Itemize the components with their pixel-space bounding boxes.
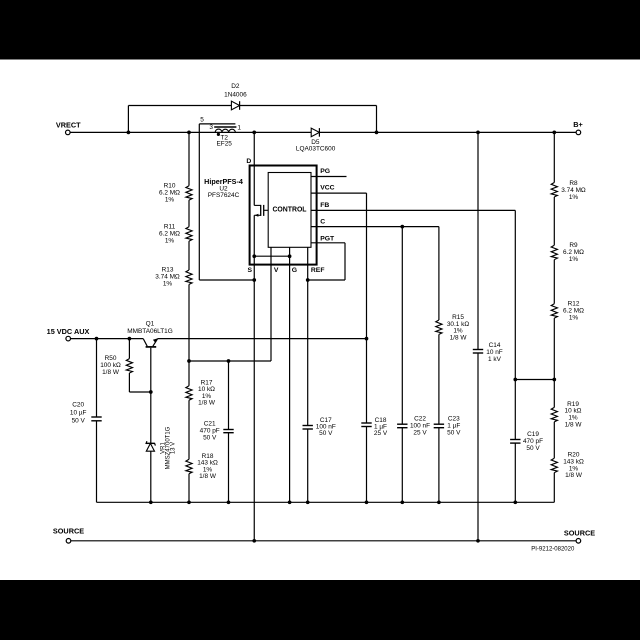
- label C22: [410, 416, 430, 437]
- resistor R8: [551, 183, 557, 197]
- wire source to G net: [254, 255, 289, 257]
- svg-text:C19: C19: [527, 431, 539, 438]
- wire R13 to V node: [188, 284, 190, 361]
- junction on G pin line: [288, 254, 292, 258]
- resistor R13: [186, 270, 192, 284]
- wire 15VDC to Q1 collector: [70, 338, 143, 340]
- label R13: [155, 267, 180, 288]
- svg-text:C: C: [320, 218, 325, 225]
- wire PG stub: [311, 176, 347, 178]
- wire to D2 anode: [128, 105, 231, 107]
- wire S pin inside: [253, 256, 255, 265]
- wire FB to divider: [515, 379, 554, 381]
- label C17: [316, 417, 336, 437]
- junction C19 rail: [513, 500, 517, 504]
- wire R11 to R13: [188, 241, 190, 270]
- wire ground rail: [97, 501, 555, 503]
- wire C pin to R15: [438, 227, 440, 320]
- junction C21 tap: [227, 359, 231, 363]
- wire G pin to rail: [289, 265, 291, 503]
- op-amp U2 HiperPFS-4 package box: [250, 166, 317, 265]
- capacitor C22: [397, 423, 407, 425]
- svg-text:470 pF: 470 pF: [523, 438, 543, 445]
- svg-text:6.2 MΩ: 6.2 MΩ: [563, 249, 584, 256]
- wire Q1 emitter to VCC net: [158, 338, 367, 340]
- svg-text:1/8 W: 1/8 W: [565, 472, 583, 479]
- label R17: [198, 379, 216, 406]
- svg-text:470 pF: 470 pF: [200, 427, 220, 434]
- wire D2 branch up: [127, 106, 129, 133]
- svg-text:PFS7624C: PFS7624C: [208, 192, 240, 199]
- svg-text:1%: 1%: [569, 314, 579, 321]
- svg-text:Q1: Q1: [146, 321, 155, 328]
- junction divider FB tap: [552, 378, 556, 382]
- svg-text:1%: 1%: [165, 196, 175, 203]
- svg-text:R11: R11: [164, 223, 176, 230]
- diode D5: [311, 128, 319, 137]
- svg-text:1: 1: [237, 125, 241, 132]
- wire SOURCE line: [71, 540, 577, 542]
- wire B+ to R8: [553, 132, 555, 182]
- wire Q1 base down: [150, 348, 152, 392]
- svg-text:10 nF: 10 nF: [486, 349, 503, 356]
- svg-text:PG: PG: [320, 168, 330, 175]
- wire VCC pin: [311, 192, 367, 194]
- wire V node to R17: [188, 361, 190, 386]
- svg-text:15 VDC AUX: 15 VDC AUX: [47, 327, 90, 336]
- svg-text:3.74 MΩ: 3.74 MΩ: [155, 274, 180, 281]
- wire C23 to rail: [438, 428, 440, 503]
- svg-text:1%: 1%: [569, 194, 579, 201]
- capacitor C17: [303, 425, 313, 427]
- terminal SOURCE right: [576, 539, 581, 544]
- svg-text:1N4006: 1N4006: [224, 92, 247, 99]
- wire FB down to C19: [514, 210, 516, 439]
- wire C17 to rail: [307, 429, 309, 502]
- svg-text:PGT: PGT: [320, 235, 335, 242]
- svg-text:SOURCE: SOURCE: [564, 528, 595, 537]
- wire B+ to C14: [477, 132, 479, 349]
- svg-text:R13: R13: [162, 267, 174, 274]
- junction FB node: [513, 378, 517, 382]
- label C19: [523, 431, 543, 452]
- svg-text:VRECT: VRECT: [56, 120, 81, 129]
- wire G pin: [289, 247, 291, 265]
- svg-text:1 µF: 1 µF: [447, 423, 460, 430]
- resistor R50: [126, 359, 132, 373]
- junction D2 branch: [127, 131, 131, 135]
- svg-text:EF25: EF25: [217, 140, 233, 147]
- junction D2 return: [375, 131, 379, 135]
- junction G rail: [288, 500, 292, 504]
- svg-text:R12: R12: [568, 300, 580, 307]
- capacitor C21: [223, 429, 233, 431]
- svg-text:1/8 W: 1/8 W: [102, 369, 120, 376]
- transformer T2 winding: [215, 129, 235, 132]
- svg-text:R8: R8: [569, 180, 578, 187]
- junction VCC-C18: [365, 337, 369, 341]
- svg-text:C21: C21: [204, 420, 216, 427]
- wire PGT pin: [311, 242, 345, 244]
- resistor R17: [186, 386, 192, 400]
- svg-text:1%: 1%: [165, 237, 175, 244]
- svg-text:R10: R10: [164, 182, 176, 189]
- junction R18 rail: [187, 500, 191, 504]
- svg-text:50 V: 50 V: [72, 417, 86, 424]
- svg-text:50 V: 50 V: [319, 430, 333, 437]
- junction source-S: [252, 254, 256, 258]
- svg-text:3: 3: [209, 124, 213, 131]
- wire R9 to R12: [553, 260, 555, 304]
- svg-text:1 kV: 1 kV: [488, 356, 502, 363]
- junction S-SOURCE: [252, 539, 256, 543]
- svg-text:25 V: 25 V: [374, 430, 388, 437]
- junction S node: [252, 278, 256, 282]
- svg-text:PI-9212-082020: PI-9212-082020: [531, 546, 575, 552]
- wire to C20: [96, 339, 98, 417]
- junction C20 tap: [95, 337, 99, 341]
- svg-text:LQA03TC600: LQA03TC600: [296, 146, 336, 153]
- diode D2: [231, 101, 239, 110]
- wire C20 to rail: [96, 421, 98, 503]
- svg-text:1/8 W: 1/8 W: [565, 421, 583, 428]
- junction C21 rail: [227, 500, 231, 504]
- svg-text:50 V: 50 V: [203, 434, 217, 441]
- resistor R9: [551, 245, 557, 259]
- capacitor C23: [434, 423, 444, 425]
- label C18: [374, 417, 388, 437]
- svg-text:CONTROL: CONTROL: [272, 207, 306, 214]
- T2 phase dot: [217, 133, 220, 136]
- label R11: [159, 223, 180, 244]
- wire R17 to R18: [188, 400, 190, 459]
- wire PGT down: [344, 243, 346, 280]
- terminal VRECT: [66, 130, 71, 135]
- label R9: [563, 242, 584, 263]
- resistor R10: [186, 186, 192, 200]
- svg-text:1/8 W: 1/8 W: [199, 473, 217, 480]
- terminal SOURCE left: [66, 539, 71, 544]
- svg-text:100 kΩ: 100 kΩ: [100, 362, 121, 369]
- wire C19 to rail: [514, 443, 516, 502]
- wire D5 to B+: [319, 131, 576, 133]
- svg-text:1/8 W: 1/8 W: [198, 400, 216, 407]
- svg-text:S: S: [248, 267, 253, 274]
- svg-text:6.2 MΩ: 6.2 MΩ: [159, 230, 180, 237]
- wire R50 bottom: [128, 373, 130, 392]
- resistor R15: [436, 320, 442, 334]
- svg-text:25 V: 25 V: [413, 430, 427, 437]
- wire REF down: [307, 265, 309, 426]
- wire REF pin inside: [307, 247, 309, 265]
- label R18: [197, 453, 218, 480]
- wire to C22: [401, 227, 403, 425]
- svg-text:C20: C20: [72, 401, 84, 408]
- junction C22 rail: [400, 500, 404, 504]
- junction REF rail: [306, 500, 310, 504]
- svg-text:6.2 MΩ: 6.2 MΩ: [159, 189, 180, 196]
- wire R20 to rail: [553, 473, 555, 503]
- wire FB pin: [311, 209, 515, 211]
- svg-text:1%: 1%: [163, 281, 173, 288]
- resistor R20: [551, 458, 557, 472]
- label R20: [563, 452, 584, 479]
- wire C pin: [311, 226, 439, 228]
- terminal B+: [576, 130, 581, 135]
- label C23: [447, 416, 461, 437]
- wire VR1 to rail: [150, 451, 152, 502]
- wire V node horizontal: [189, 360, 271, 362]
- junction base-R50: [149, 390, 153, 394]
- label R15: [447, 314, 470, 341]
- wire to C21: [228, 361, 230, 430]
- capacitor C18: [361, 422, 371, 424]
- svg-text:C23: C23: [448, 416, 460, 423]
- transformer T2 core bar: [214, 126, 236, 128]
- resistor R12: [551, 304, 557, 318]
- svg-text:VCC: VCC: [320, 185, 334, 192]
- svg-text:5: 5: [200, 117, 204, 124]
- svg-text:B+: B+: [573, 120, 583, 129]
- junction C22 tap: [400, 225, 404, 229]
- junction V node left: [187, 359, 191, 363]
- wire T2 pin5 down: [198, 124, 200, 280]
- label C20: [70, 401, 87, 424]
- wire V pin inside: [270, 247, 272, 265]
- wire C22 to rail: [401, 428, 403, 503]
- junction VR1 rail: [149, 500, 153, 504]
- svg-text:C22: C22: [414, 416, 426, 423]
- U2 CONTROL block: [268, 173, 311, 248]
- wire R50 to base: [129, 391, 150, 393]
- svg-text:R50: R50: [105, 355, 117, 362]
- svg-text:1/8 W: 1/8 W: [450, 334, 468, 341]
- label R10: [159, 182, 180, 203]
- wire R19 to R20: [553, 422, 555, 458]
- svg-text:C14: C14: [489, 342, 501, 349]
- wire S pin to SOURCE: [253, 265, 255, 541]
- label R50: [100, 355, 121, 376]
- wire R18 to rail: [188, 474, 190, 503]
- wire VRECT to D5: [70, 131, 311, 133]
- svg-text:100 nF: 100 nF: [410, 423, 430, 430]
- wire R8 to R9: [553, 197, 555, 245]
- svg-text:REF: REF: [311, 267, 325, 274]
- svg-text:1%: 1%: [569, 256, 579, 263]
- label C14: [486, 342, 503, 363]
- wire R15 to C23: [438, 334, 440, 424]
- junction R8 chain: [552, 131, 556, 135]
- junction C14 branch: [476, 131, 480, 135]
- svg-text:D2: D2: [231, 83, 240, 90]
- junction REF-PGT: [306, 278, 310, 282]
- wire main to R10: [188, 132, 190, 185]
- wire D2 branch down: [376, 106, 378, 133]
- svg-text:R9: R9: [569, 242, 578, 249]
- capacitor C14: [473, 349, 483, 351]
- wire base to VR1: [150, 392, 152, 443]
- wire D2 cathode across: [240, 105, 377, 107]
- junction U2 drain: [252, 131, 256, 135]
- wire drain D pin: [253, 132, 255, 205]
- junction C18 rail: [365, 500, 369, 504]
- wire PGT to REF: [308, 279, 345, 281]
- wire V pin down: [270, 265, 272, 361]
- svg-text:10 µF: 10 µF: [70, 409, 87, 416]
- svg-text:V: V: [274, 267, 279, 274]
- svg-text:13 V: 13 V: [171, 442, 177, 454]
- svg-text:3.74 MΩ: 3.74 MΩ: [561, 187, 586, 194]
- junction C14-SOURCE: [476, 539, 480, 543]
- capacitor C19: [510, 439, 520, 441]
- zener diode VR1: [146, 441, 155, 445]
- svg-text:G: G: [292, 267, 297, 274]
- transistor Q(MOSFET) inside U2: [254, 204, 260, 206]
- label R8: [561, 180, 586, 201]
- resistor R19: [551, 407, 557, 421]
- wire T2 pin 5 winding: [199, 123, 235, 125]
- svg-text:SOURCE: SOURCE: [53, 527, 84, 536]
- junction C23 rail: [437, 500, 441, 504]
- capacitor C20: [91, 416, 101, 418]
- terminal 15 VDC AUX: [66, 336, 71, 341]
- wire source down: [253, 215, 255, 256]
- wire C21 to rail: [228, 433, 230, 503]
- junction R10 chain: [187, 131, 191, 135]
- svg-text:FB: FB: [320, 202, 329, 209]
- wire C18 to rail: [366, 427, 368, 503]
- svg-text:MMBTA06LT1G: MMBTA06LT1G: [127, 328, 173, 335]
- label C21: [200, 420, 220, 441]
- transistor Q1: [143, 339, 147, 347]
- wire to R50: [128, 339, 130, 359]
- resistor R18: [186, 459, 192, 473]
- svg-text:D: D: [246, 158, 251, 165]
- wire R12 to R19: [553, 318, 555, 407]
- resistor R11: [186, 227, 192, 241]
- svg-text:50 V: 50 V: [526, 445, 540, 452]
- junction R50 tap: [128, 337, 132, 341]
- label R19: [565, 401, 583, 428]
- wire C14 to SOURCE: [477, 353, 479, 541]
- wire pin5 to S node: [199, 279, 254, 281]
- wire VCC down to C18: [366, 193, 368, 423]
- wire R10 to R11: [188, 200, 190, 227]
- svg-text:6.2 MΩ: 6.2 MΩ: [563, 307, 584, 314]
- label R12: [563, 300, 584, 321]
- svg-text:50 V: 50 V: [447, 430, 461, 437]
